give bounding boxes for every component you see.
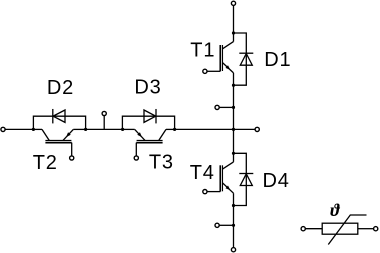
svg-text:D1: D1: [264, 49, 291, 71]
svg-text:T2: T2: [33, 152, 58, 174]
svg-text:T1: T1: [190, 40, 215, 62]
svg-text:D2: D2: [47, 77, 74, 99]
svg-text:T4: T4: [190, 162, 215, 184]
svg-text:D3: D3: [134, 77, 161, 99]
svg-text:D4: D4: [263, 170, 290, 192]
svg-text:ϑ: ϑ: [330, 200, 340, 220]
svg-text:T3: T3: [149, 151, 174, 173]
